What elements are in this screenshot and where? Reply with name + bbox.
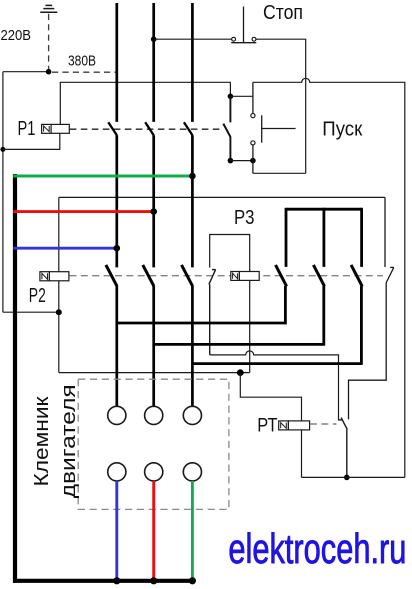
contactor P3 bus [286,208,362,211]
contact P2 pole3 [182,265,193,286]
terminal V2 [183,463,201,481]
thermal relay РТ heater [279,421,310,430]
svg-text:Стоп: Стоп [263,2,303,24]
svg-text:elektroceh.ru: elektroceh.ru [228,525,406,572]
node green to bus [189,577,196,584]
power line L2 [152,3,155,407]
pushbutton Пуск NO [251,82,296,173]
wire return horizontal y=372.6 [59,372,250,374]
green wire star link [13,175,192,178]
wire to RT heater [240,373,301,421]
coil P3 [231,272,259,281]
terminal W2 [108,463,126,481]
node latch bottom right [250,158,256,164]
svg-text:380В: 380В [68,54,96,70]
blue wire star link [13,247,117,250]
contact P3 pole1 [276,208,287,325]
wire P2 coil bottom [58,281,60,373]
node latch top [228,94,234,100]
red wire star link [13,210,154,213]
node 220V junction [46,69,52,75]
wire P3 branch left drop with hop [210,351,339,420]
svg-text:Пуск: Пуск [322,119,362,141]
wire motor green [191,481,194,581]
svg-text:РТ: РТ [257,415,277,437]
svg-text:двигателя: двигателя [57,384,80,498]
svg-text:Р1: Р1 [18,118,36,140]
svg-text:Клемник: Клемник [30,395,53,486]
terminal V1 [145,406,163,424]
wire motor blue [115,481,118,581]
wire delta link3 [192,362,361,365]
wire delta link1 [117,322,286,325]
wire P1 coil bottom [3,133,60,149]
wire latch bottom to stop drop [253,172,306,174]
dashed mech link RT [310,423,337,425]
wire P1 coil top feed [60,82,230,124]
wire star bus left vertical [13,174,17,583]
wire P3 branch top [210,235,250,272]
node blue tap L1 [114,245,121,252]
wire delta link2 [154,343,324,346]
wire left return vertical [2,72,4,313]
power line L1 [115,3,118,407]
contact P3 pole2 [313,208,324,346]
terminal W1 [183,406,201,424]
contact P1 aux [223,96,230,160]
node red tap L2 [150,208,157,215]
contact P2 pole2 [143,265,154,286]
pushbutton Стоп NC [231,7,256,43]
dashed mech link P1 [70,128,223,130]
node stop tap on L2 [151,36,157,42]
wire dashed ground drop [48,14,50,71]
dashed mech link P2-P3 row [69,275,383,277]
wire 220V solid left [3,71,49,73]
coil P2 [40,272,69,281]
node red to bus [150,577,157,584]
node P1 coil return [0,147,5,152]
wire stop right [256,39,306,173]
wire 380V dashed to L1 [52,71,116,73]
wire latch top link [230,95,253,97]
wire control return bottom [302,476,405,478]
wire RT heater bottom [301,430,303,478]
contact P3 aux NC right [349,197,394,419]
node RT contact return [344,475,350,481]
ground [40,5,57,12]
wire stop left [154,38,232,40]
terminal box dashed [78,379,229,509]
wire P2 coil top feed [58,197,60,271]
wire star bus bottom [13,579,194,583]
contact P1 pole3 [184,122,193,135]
contact P2 pole1 [106,265,117,286]
coil P1 [42,124,70,133]
wire motor red [152,481,155,581]
wire P3 coil bottom [249,280,251,372]
node P2/P3 return junction [56,309,62,315]
wire latch top rail with hop [253,78,405,477]
power line L3 [191,3,194,407]
node P3 return [237,369,244,376]
contact P1 pole2 [145,122,154,135]
node latch bottom left [228,158,234,164]
contact РТ NC [338,418,347,478]
wire control bus y=197 [59,196,385,198]
terminal U2 [145,463,163,481]
wire latch bottom link [230,160,253,162]
terminal U1 [108,406,126,424]
contact P2 aux NC [209,270,216,355]
wire left return bottom horizontal [3,311,59,313]
svg-text:Р2: Р2 [29,285,46,307]
svg-text:Р3: Р3 [234,207,255,229]
contact P3 pole3 [351,208,362,365]
node blue to bus [113,577,120,584]
svg-text:220В: 220В [1,28,32,44]
node green tap L3 [189,173,196,180]
contact P1 pole1 [108,122,117,135]
